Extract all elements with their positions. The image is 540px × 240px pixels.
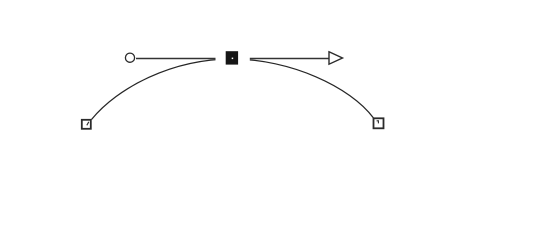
node: white knockout around anchor bbox=[216, 46, 250, 70]
wire: right handle line from anchor to arrow bbox=[232, 58, 330, 60]
node: right endpoint square bbox=[374, 118, 384, 128]
wire: left handle line from circle to anchor bbox=[136, 58, 232, 60]
node: mark inside left square bbox=[87, 122, 89, 126]
node: drag-direction arrowhead bbox=[329, 52, 343, 64]
node: anchor point filled square bbox=[226, 51, 238, 64]
node: drag-start circle handle bbox=[125, 53, 134, 62]
wire: left curve segment from corner point to anchor bbox=[92, 59, 233, 120]
wire: right curve segment from anchor to corner point bbox=[232, 59, 374, 118]
node: left endpoint square bbox=[82, 120, 91, 129]
node: mark inside right square bbox=[377, 121, 379, 124]
